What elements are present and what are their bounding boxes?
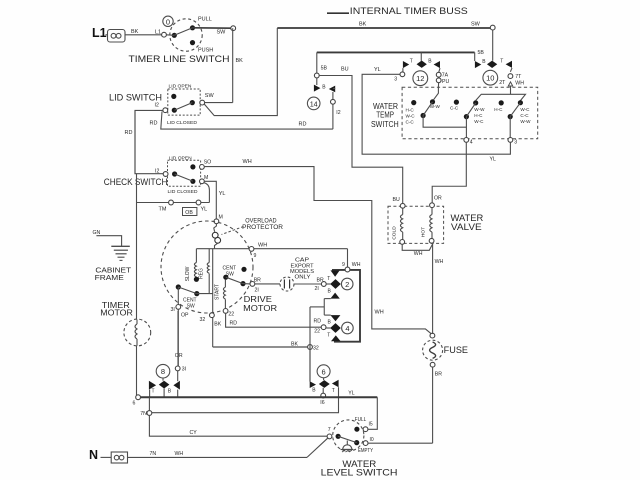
svg-text:CY: CY [190, 430, 198, 436]
svg-text:WH: WH [375, 310, 384, 316]
svg-text:BR: BR [317, 277, 324, 283]
svg-text:FULL: FULL [355, 417, 367, 423]
svg-text:LID SWITCH: LID SWITCH [109, 92, 162, 102]
svg-text:SW: SW [187, 303, 195, 309]
svg-text:3: 3 [394, 77, 397, 83]
svg-text:LID CLOSED: LID CLOSED [168, 189, 199, 195]
svg-text:BR: BR [254, 277, 261, 283]
svg-text:FRAME: FRAME [95, 273, 124, 282]
svg-text:COLD: COLD [391, 226, 397, 240]
svg-text:BK: BK [214, 322, 221, 328]
svg-text:BU: BU [341, 67, 349, 73]
svg-text:32: 32 [313, 346, 319, 352]
svg-text:8: 8 [161, 367, 165, 376]
svg-text:BK: BK [131, 29, 139, 35]
svg-text:SW: SW [205, 93, 215, 99]
svg-text:2T: 2T [499, 80, 506, 86]
svg-text:WH: WH [258, 242, 267, 248]
svg-text:3I: 3I [182, 367, 186, 373]
svg-text:7N: 7N [150, 451, 157, 457]
svg-text:GN: GN [93, 230, 101, 236]
svg-text:BU: BU [393, 197, 400, 203]
svg-text:LID OPEN: LID OPEN [169, 84, 193, 90]
svg-text:OR: OR [175, 353, 183, 359]
svg-text:W-C: W-C [474, 119, 484, 124]
svg-text:14: 14 [310, 99, 318, 108]
svg-text:2I: 2I [315, 286, 319, 292]
svg-text:10: 10 [486, 74, 494, 83]
svg-text:WH: WH [435, 259, 444, 265]
svg-text:WH: WH [515, 81, 524, 87]
svg-text:OR: OR [434, 196, 442, 202]
svg-text:I6: I6 [320, 400, 324, 406]
svg-text:HOT: HOT [420, 227, 426, 237]
svg-text:W-C: W-C [406, 113, 416, 118]
svg-text:WH: WH [352, 262, 361, 268]
svg-text:RD: RD [125, 130, 133, 136]
svg-text:MOTOR: MOTOR [243, 303, 277, 313]
svg-text:I0: I0 [370, 437, 374, 443]
svg-text:TIMER LINE SWITCH: TIMER LINE SWITCH [129, 54, 230, 64]
svg-text:INTERNAL TIMER BUSS: INTERNAL TIMER BUSS [350, 6, 468, 17]
svg-text:I5: I5 [369, 422, 373, 428]
svg-text:5B: 5B [478, 50, 485, 56]
svg-text:H-C: H-C [406, 108, 415, 113]
svg-text:SW: SW [471, 22, 481, 28]
svg-text:H-C: H-C [494, 107, 503, 112]
svg-text:7A: 7A [442, 72, 449, 78]
svg-text:M: M [204, 175, 208, 181]
svg-text:2I: 2I [255, 287, 259, 293]
svg-text:WH: WH [243, 159, 252, 165]
svg-text:T: T [500, 59, 503, 65]
svg-text:3I: 3I [171, 307, 175, 313]
svg-text:T: T [152, 389, 155, 395]
svg-text:BK: BK [359, 22, 367, 28]
svg-text:RD: RD [230, 321, 238, 327]
svg-text:W-C: W-C [520, 107, 530, 112]
svg-text:32: 32 [200, 317, 206, 323]
svg-text:CHECK SWITCH: CHECK SWITCH [104, 177, 168, 188]
svg-text:W-W: W-W [520, 119, 531, 124]
svg-text:5B: 5B [321, 66, 328, 72]
svg-text:WH: WH [414, 251, 423, 257]
svg-text:YL: YL [219, 191, 226, 197]
svg-text:M: M [219, 214, 223, 220]
svg-text:9: 9 [254, 253, 257, 259]
svg-text:TM: TM [159, 207, 167, 213]
svg-text:4: 4 [470, 139, 473, 145]
svg-text:7N: 7N [140, 411, 147, 417]
svg-text:2: 2 [345, 280, 349, 289]
svg-text:OB: OB [185, 210, 193, 216]
svg-text:12: 12 [416, 74, 424, 83]
svg-text:I2: I2 [155, 168, 159, 174]
svg-text:L1: L1 [155, 30, 161, 36]
svg-text:BR: BR [435, 372, 442, 378]
svg-text:SLOW: SLOW [185, 266, 191, 281]
svg-text:EMPTY: EMPTY [358, 448, 374, 454]
svg-text:PROTECTOR: PROTECTOR [242, 224, 283, 231]
svg-text:MOTOR: MOTOR [100, 309, 133, 318]
svg-text:ONLY: ONLY [295, 275, 312, 281]
svg-text:I2: I2 [155, 103, 159, 109]
svg-text:L1: L1 [92, 26, 107, 40]
svg-text:SW: SW [217, 30, 227, 36]
svg-text:BK: BK [291, 342, 298, 348]
svg-text:PULL: PULL [198, 16, 212, 22]
svg-text:C-C: C-C [520, 113, 529, 118]
svg-text:OP: OP [181, 313, 189, 319]
svg-text:LID OPEN: LID OPEN [169, 155, 193, 161]
svg-text:BK: BK [236, 58, 244, 64]
svg-text:3: 3 [514, 139, 517, 145]
svg-text:VALVE: VALVE [451, 222, 482, 232]
svg-text:FUSE: FUSE [444, 345, 468, 355]
svg-text:T: T [332, 388, 335, 394]
svg-text:W-W: W-W [430, 104, 441, 109]
svg-text:WH: WH [175, 451, 184, 457]
svg-text:7T: 7T [515, 74, 522, 80]
svg-text:SWITCH: SWITCH [371, 120, 399, 129]
svg-text:22: 22 [314, 328, 320, 334]
svg-text:RD: RD [299, 122, 307, 128]
svg-text:C-C: C-C [406, 119, 415, 124]
svg-text:0: 0 [166, 17, 170, 26]
svg-text:H-C: H-C [474, 113, 483, 118]
svg-text:N: N [89, 448, 98, 462]
svg-text:YL: YL [490, 157, 496, 163]
svg-text:T: T [410, 59, 413, 65]
svg-text:PUSH: PUSH [198, 47, 213, 53]
svg-text:REG: REG [198, 268, 204, 279]
svg-text:PU: PU [442, 79, 449, 85]
svg-text:W-W: W-W [474, 107, 485, 112]
svg-text:LID CLOSED: LID CLOSED [167, 120, 198, 126]
svg-text:TEMP: TEMP [376, 111, 394, 120]
svg-text:7: 7 [328, 427, 331, 433]
svg-text:T: T [327, 276, 330, 282]
svg-text:RD: RD [150, 121, 158, 127]
svg-text:6: 6 [322, 367, 326, 376]
svg-text:SO: SO [204, 160, 212, 166]
svg-text:START: START [215, 284, 221, 300]
svg-text:9: 9 [342, 262, 345, 268]
svg-text:I2: I2 [336, 110, 340, 116]
svg-text:6: 6 [133, 401, 136, 407]
svg-text:YL: YL [348, 390, 354, 396]
svg-text:LEVEL SWITCH: LEVEL SWITCH [321, 467, 398, 477]
svg-text:22: 22 [228, 312, 234, 318]
svg-text:YL: YL [201, 207, 208, 213]
svg-text:RD: RD [314, 319, 322, 325]
svg-text:4: 4 [345, 324, 349, 333]
svg-text:YL: YL [374, 67, 381, 73]
svg-text:T: T [327, 333, 330, 339]
svg-text:C-C: C-C [450, 105, 459, 110]
